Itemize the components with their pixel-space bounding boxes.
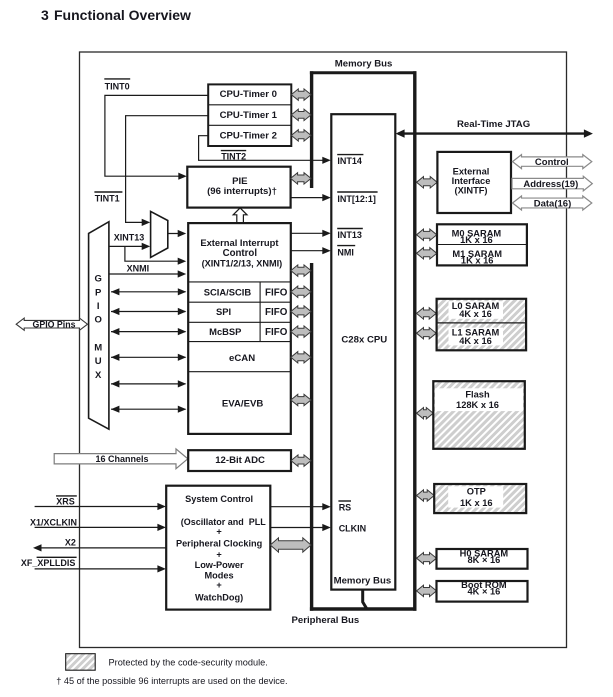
svg-text:+: + <box>216 550 221 560</box>
svg-text:12-Bit ADC: 12-Bit ADC <box>215 455 265 466</box>
svg-text:eCAN: eCAN <box>229 353 255 364</box>
wire INT13 to CPU <box>291 232 329 234</box>
bus link L1 SARAM <box>417 328 437 339</box>
Real-Time JTAG arrow <box>398 132 590 134</box>
PIE input up-arrow <box>233 208 247 223</box>
wire XRS <box>35 506 164 508</box>
wire TINT2 <box>199 136 329 161</box>
svg-text:Peripheral Bus: Peripheral Bus <box>292 615 360 626</box>
wire X1/XCLKIN <box>35 526 164 528</box>
Data bus arrow <box>513 196 592 210</box>
wire TINT0 <box>105 95 209 176</box>
legend hatch sample <box>66 654 96 671</box>
GPIO Pins arrow <box>16 318 87 330</box>
svg-text:+: + <box>216 526 221 536</box>
12-Bit ADC box <box>188 450 291 471</box>
svg-text:FIFO: FIFO <box>265 307 288 318</box>
svg-text:P: P <box>95 287 102 298</box>
CPU-Timer dividers <box>208 104 291 106</box>
bus link EVA/EVB <box>291 394 311 405</box>
svg-text:Memory Bus: Memory Bus <box>335 59 393 70</box>
svg-text:XF_XPLLDIS: XF_XPLLDIS <box>21 558 76 568</box>
svg-text:SPI: SPI <box>216 306 231 317</box>
16 Channels arrow <box>54 449 188 469</box>
OTP text patch <box>448 486 503 507</box>
M0/M1 divider <box>437 244 527 246</box>
wire XINT13 branch <box>125 246 184 261</box>
CPU-Timer box <box>208 84 291 146</box>
wire GPIO mux peripheral link 4 <box>111 356 186 358</box>
svg-text:NMI: NMI <box>337 247 354 257</box>
bus link SCIA/SCIB <box>291 286 311 297</box>
Boot ROM box <box>437 581 528 602</box>
Control bus arrow <box>513 155 592 169</box>
svg-text:INT14: INT14 <box>337 156 362 166</box>
svg-text:Real-Time JTAG: Real-Time JTAG <box>457 119 530 130</box>
wire NMI to CPU <box>291 250 329 252</box>
svg-text:FIFO: FIFO <box>265 287 288 298</box>
peripheral row dividers <box>188 281 291 283</box>
svg-text:McBSP: McBSP <box>209 326 241 337</box>
svg-text:X1/XCLKIN: X1/XCLKIN <box>30 517 77 527</box>
wire GPIO mux peripheral link 5 <box>111 383 186 385</box>
OTP box <box>434 484 526 513</box>
C28x CPU box <box>331 114 395 589</box>
L1 text patch <box>449 328 504 346</box>
outer frame <box>80 52 567 648</box>
svg-text:Peripheral Clocking: Peripheral Clocking <box>176 538 262 548</box>
svg-text:(96 interrupts)†: (96 interrupts)† <box>207 186 277 197</box>
svg-text:Memory Bus: Memory Bus <box>334 575 392 586</box>
svg-text:16 Channels: 16 Channels <box>95 454 148 464</box>
wire GPIO mux peripheral link 1 <box>111 291 186 293</box>
bus link M1 SARAM <box>417 248 437 259</box>
wire XF_XPLLDIS <box>35 568 164 570</box>
interrupt mux <box>151 211 168 257</box>
svg-text:EVA/EVB: EVA/EVB <box>222 399 263 410</box>
svg-text:Functional Overview: Functional Overview <box>54 7 191 23</box>
Address bus arrow <box>512 176 592 191</box>
memory bus right rail <box>413 71 416 610</box>
peripheral bus bottom segment <box>310 607 417 610</box>
FIFO column divider <box>259 282 261 342</box>
svg-text:SCIA/SCIB: SCIA/SCIB <box>204 286 252 297</box>
svg-text:G: G <box>95 274 102 285</box>
svg-text:TINT1: TINT1 <box>95 194 120 204</box>
wire CLKIN to CPU <box>270 527 328 529</box>
wire RS to CPU <box>270 506 328 508</box>
svg-text:O: O <box>95 315 102 326</box>
svg-text:XRS: XRS <box>56 497 75 507</box>
svg-text:TINT2: TINT2 <box>221 152 246 162</box>
wire interrupt mux output <box>168 233 184 235</box>
memory bus left rail lower segment <box>310 263 313 611</box>
svg-text:X: X <box>95 370 102 381</box>
memory bus top segment <box>310 71 417 74</box>
wire GPIO mux peripheral link 2 <box>111 311 186 313</box>
svg-text:OTP: OTP <box>467 487 486 497</box>
wire TINT1 <box>126 116 209 223</box>
svg-text:I: I <box>97 301 100 312</box>
Flash box <box>433 381 525 449</box>
wire XNMI <box>109 273 184 275</box>
svg-text:CPU-Timer 1: CPU-Timer 1 <box>220 110 278 121</box>
External Interface (XINTF) box <box>437 152 511 213</box>
svg-text:INT13: INT13 <box>337 230 362 240</box>
svg-text:128K x 16: 128K x 16 <box>456 400 499 410</box>
wire X2 <box>35 547 166 549</box>
L0 text patch <box>449 301 504 319</box>
svg-text:(XINT1/2/13, XNMI): (XINT1/2/13, XNMI) <box>202 258 283 268</box>
GPIO MUX <box>89 222 109 430</box>
svg-text:X2: X2 <box>65 537 76 547</box>
M0/M1 SARAM box <box>437 224 527 265</box>
svg-text:4K x 16: 4K x 16 <box>459 336 492 346</box>
bus link eCAN <box>291 352 311 363</box>
svg-text:4K x 16: 4K x 16 <box>459 309 492 319</box>
External Interrupt Control / peripherals box <box>188 223 291 434</box>
bus link PIE <box>291 173 311 184</box>
svg-text:GPIO Pins: GPIO Pins <box>32 320 75 330</box>
svg-text:INT[12:1]: INT[12:1] <box>337 194 376 204</box>
svg-text:Protected by the code-security: Protected by the code-security module. <box>109 658 268 668</box>
svg-text:Flash: Flash <box>465 390 490 400</box>
svg-text:CPU-Timer 0: CPU-Timer 0 <box>220 89 277 100</box>
svg-text:1K x 16: 1K x 16 <box>461 256 494 266</box>
svg-text:Modes: Modes <box>205 570 234 580</box>
H0 SARAM box <box>437 549 528 569</box>
bus link External Interrupt Control <box>291 265 311 276</box>
bus link System Control <box>270 538 311 552</box>
svg-text:† 45 of the possible 96 interr: † 45 of the possible 96 interrupts are u… <box>56 676 287 686</box>
svg-text:Control: Control <box>535 157 569 168</box>
svg-text:4K × 16: 4K × 16 <box>467 586 500 596</box>
bus link L0 SARAM <box>417 308 437 319</box>
svg-text:TINT0: TINT0 <box>105 81 130 91</box>
wire GPIO mux peripheral link 6 <box>111 408 186 410</box>
svg-text:C28x CPU: C28x CPU <box>341 334 387 345</box>
bus link Flash <box>417 408 434 419</box>
svg-text:1K x 16: 1K x 16 <box>460 498 493 508</box>
wire PIE to INT12-1 <box>291 197 329 199</box>
memory bus left rail upper segment <box>310 71 313 188</box>
bus link CPU-Timer 0 <box>291 89 311 100</box>
L0/L1 SARAM box <box>437 299 526 351</box>
svg-text:U: U <box>95 356 102 367</box>
svg-text:CPU-Timer 2: CPU-Timer 2 <box>220 130 277 141</box>
svg-text:WatchDog): WatchDog) <box>195 592 243 602</box>
bus link SPI <box>291 306 311 317</box>
svg-text:External Interrupt: External Interrupt <box>200 237 278 248</box>
svg-text:M: M <box>94 343 102 354</box>
System Control box <box>166 486 270 610</box>
svg-text:(Oscillator and PLL: (Oscillator and PLL <box>181 517 267 527</box>
svg-text:System Control: System Control <box>185 494 253 504</box>
svg-text:3: 3 <box>41 7 49 23</box>
bus link Boot ROM <box>417 585 437 596</box>
bus link CPU-Timer 1 <box>291 109 311 120</box>
bus link XINTF <box>417 177 438 188</box>
svg-text:Address(19): Address(19) <box>523 179 578 190</box>
wire XINT13 <box>109 245 148 247</box>
svg-text:External: External <box>453 167 490 177</box>
svg-text:(XINTF): (XINTF) <box>454 186 487 196</box>
svg-text:PIE: PIE <box>232 176 248 187</box>
Flash text patch <box>435 388 523 411</box>
bus link ADC <box>291 455 311 466</box>
bus link CPU-Timer 2 <box>291 130 311 141</box>
svg-text:Interface: Interface <box>452 176 491 186</box>
L0/L1 divider <box>437 322 526 324</box>
svg-text:CLKIN: CLKIN <box>339 524 367 534</box>
svg-text:8K × 16: 8K × 16 <box>467 555 500 565</box>
svg-text:RS: RS <box>339 503 352 513</box>
svg-text:Low-Power: Low-Power <box>195 560 244 570</box>
bus link H0 SARAM <box>417 553 437 564</box>
svg-text:Data(16): Data(16) <box>534 199 572 210</box>
svg-text:FIFO: FIFO <box>265 327 288 338</box>
wire GPIO mux peripheral link 3 <box>111 331 186 333</box>
svg-text:+: + <box>216 580 221 590</box>
svg-text:XINT13: XINT13 <box>114 232 145 242</box>
memory bus CPU stub <box>363 589 367 609</box>
bus link McBSP <box>291 326 311 337</box>
bus link M0 SARAM <box>417 229 437 240</box>
bus link OTP <box>417 490 435 501</box>
svg-text:1K x 16: 1K x 16 <box>460 235 493 245</box>
svg-text:XNMI: XNMI <box>127 264 150 274</box>
PIE box <box>187 167 290 208</box>
